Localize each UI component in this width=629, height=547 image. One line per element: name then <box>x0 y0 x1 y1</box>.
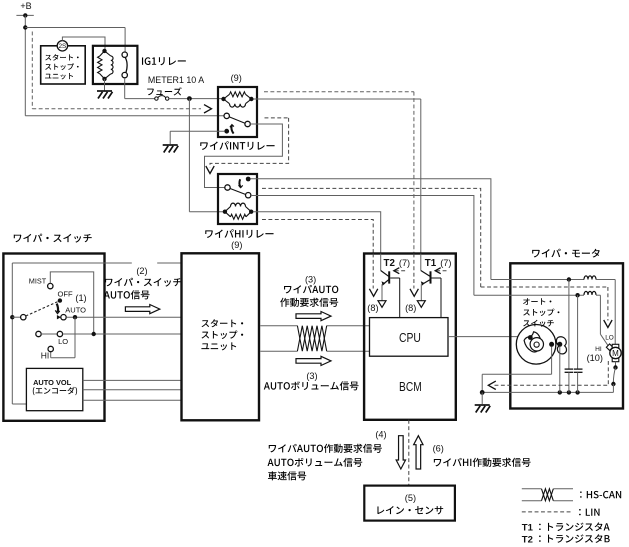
wire +B to IG1 relay contact <box>25 28 125 53</box>
svg-text:(7): (7) <box>440 258 451 268</box>
svg-text:MIST: MIST <box>29 276 47 285</box>
wire fused feed to wiper INT relay contact <box>25 115 224 117</box>
svg-text:BCM: BCM <box>399 379 422 394</box>
wire motor HI feed with choke <box>491 276 615 344</box>
svg-text:(2): (2) <box>136 266 147 276</box>
relay INT coil (resistor + inductor parallel) <box>221 92 253 107</box>
relay wiper HI box <box>218 174 257 224</box>
svg-text:(5): (5) <box>405 493 416 503</box>
label (3) wiper AUTO request signal <box>280 274 338 306</box>
label transistor T2 <box>384 257 411 269</box>
wires AUTO VOL to start-stop unit <box>83 380 183 400</box>
ground INT relay <box>163 145 179 153</box>
svg-text:AUTO: AUTO <box>65 305 86 314</box>
wire motor common to ground bus <box>611 362 618 393</box>
auto-stop switch cam plate <box>516 325 556 365</box>
ground wiper motor <box>475 405 491 413</box>
wire wiper switch common bus <box>12 263 182 404</box>
rain sensor box <box>364 486 455 521</box>
signal arrow down to rain sensor <box>396 436 405 469</box>
svg-text:METER1 10 A: METER1 10 A <box>148 75 204 85</box>
svg-text:T1: T1 <box>425 257 437 269</box>
svg-text:AUTO VOL: AUTO VOL <box>33 378 72 387</box>
svg-text:2S: 2S <box>58 43 66 50</box>
CPU box <box>370 318 449 357</box>
label auto-stop switch <box>523 298 559 327</box>
LIN dashed line from start-stop unit to INT relay <box>32 32 211 114</box>
label (3) AUTO volume signal <box>264 371 359 390</box>
relay IG1 coil (resistor + inductor parallel) <box>98 49 113 81</box>
label transistor T1 <box>425 257 452 269</box>
component 2S circuit breaker <box>57 41 67 51</box>
legend LIN symbol <box>522 509 600 516</box>
svg-text:(9): (9) <box>231 73 242 83</box>
svg-text:(9): (9) <box>231 240 242 250</box>
BCM box <box>364 254 456 420</box>
transistor T1 <box>417 254 441 318</box>
motor M <box>610 344 621 361</box>
svg-text:OFF: OFF <box>58 289 74 298</box>
wiper motor box <box>510 263 623 408</box>
relay wiper INT box <box>218 87 257 137</box>
dashed arrow T2 drive (8) <box>367 254 378 314</box>
wire motor ground bus <box>482 390 613 394</box>
wire IG1 contact to fuse <box>125 78 155 99</box>
switch MIST contact <box>29 272 94 333</box>
svg-text:(3): (3) <box>306 371 317 381</box>
wire HI relay output to wiper motor LO winding <box>251 196 474 296</box>
wiper switch box <box>3 254 104 421</box>
encoder AUTO VOL box <box>26 368 82 410</box>
switch HI contact <box>41 346 54 360</box>
wire HS-CAN low <box>260 350 369 352</box>
signal arrow up from rain sensor <box>414 436 423 469</box>
svg-text:T2: T2 <box>384 257 396 269</box>
wire INT relay contact to ground <box>170 131 224 144</box>
legend T2 transistor B <box>522 534 610 545</box>
svg-text:(1): (1) <box>75 293 86 303</box>
LIN dashed motor return arrow <box>488 361 608 390</box>
svg-text:CPU: CPU <box>399 330 421 345</box>
label signals to rain sensor <box>268 444 382 481</box>
svg-text:LO: LO <box>58 337 68 346</box>
capacitor C1 <box>565 280 574 393</box>
dashed arrow T1 drive (8) <box>405 254 418 314</box>
capacitor C2 <box>574 295 583 392</box>
label HI (10) <box>587 346 603 363</box>
label (2) wiper switch AUTO signal <box>104 258 182 299</box>
svg-text:M: M <box>612 349 619 358</box>
label (6) wiper HI request signal <box>433 444 531 467</box>
relay IG1 box <box>93 46 137 84</box>
signal arrow wiper switch AUTO <box>125 305 159 314</box>
wire CPU to auto-stop switch <box>448 336 529 338</box>
LIN dashed INT relay to BCM T1 <box>264 92 414 254</box>
wire auto-stop common to ground <box>480 347 552 405</box>
wire HS-CAN high <box>260 325 369 327</box>
wire INT coil to BCM T1 collector <box>254 99 421 254</box>
label IG1 relay <box>142 57 186 65</box>
switch common pole with OFF position <box>10 289 87 320</box>
label wiper motor <box>532 249 600 258</box>
relay HI contact <box>225 177 251 198</box>
switch AUTO contact and output <box>61 305 183 320</box>
wire motor LO feed with choke <box>474 291 608 346</box>
LIN dashed arrow into T1 base <box>435 268 449 274</box>
transistor T2 <box>378 254 400 318</box>
relay IG1 contact <box>122 52 127 78</box>
svg-text:T2: T2 <box>522 534 533 545</box>
wire 2S to IG1 coil <box>62 37 105 51</box>
svg-text:(6): (6) <box>433 444 444 454</box>
legend T1 transistor A <box>522 522 610 533</box>
svg-text:LO: LO <box>605 334 614 341</box>
ground IG1 relay coil <box>97 79 113 99</box>
start-stop unit (top) box <box>41 46 85 84</box>
power +B terminal <box>16 1 33 18</box>
LIN dashed to motor LO terminal <box>481 287 614 341</box>
wire INT relay output to HI relay contact <box>205 124 283 188</box>
label wiper INT relay <box>200 141 274 150</box>
svg-text:(8): (8) <box>367 303 378 313</box>
LIN dashed arrow into T2 base <box>394 268 408 274</box>
LIN dashed BCM to rain sensor <box>408 420 410 486</box>
auto-stop switch contact finger <box>549 337 566 354</box>
LIN dashed HI relay to wiper motor <box>262 188 481 287</box>
wire AUTO line to HI contact <box>51 317 75 358</box>
signal arrow wiper AUTO request <box>296 312 331 321</box>
wire fused feed down to HI relay coil <box>189 99 223 212</box>
svg-text:(4): (4) <box>375 429 386 439</box>
LIN dashed INT relay to HI relay <box>206 118 289 174</box>
svg-text:(10): (10) <box>587 353 603 363</box>
svg-text:+B: +B <box>20 1 31 11</box>
switch LO contacts and output <box>36 331 183 346</box>
label wiper switch <box>14 234 92 243</box>
start-stop unit main box <box>182 253 260 420</box>
svg-text:(8): (8) <box>405 303 416 313</box>
fuse METER1 10A <box>147 75 204 101</box>
wire auto-stop contact to ground bus <box>559 347 561 393</box>
wire HI relay feed to wiper motor HI winding <box>251 179 491 280</box>
relay INT contact <box>224 113 250 133</box>
HS-CAN twisted pair symbol <box>297 326 326 352</box>
wire fuse to INT relay coil <box>169 96 224 101</box>
svg-text:HI: HI <box>41 351 50 361</box>
LIN dashed HI relay to BCM T2 <box>262 220 373 254</box>
relay HI coil (inductor + resistor parallel) <box>223 203 254 219</box>
svg-text:T1: T1 <box>522 523 534 534</box>
svg-text:(3): (3) <box>305 274 316 284</box>
signal arrow AUTO volume <box>296 356 331 365</box>
label wiper HI relay <box>205 229 273 238</box>
svg-text:HI: HI <box>595 346 602 353</box>
wire +B rail down left side <box>23 15 27 115</box>
wire HI relay coil to BCM T2 collector <box>253 212 380 254</box>
motor LO brush terminal <box>606 344 613 351</box>
legend HS-CAN symbol <box>522 489 621 501</box>
svg-text:(7): (7) <box>399 258 410 268</box>
